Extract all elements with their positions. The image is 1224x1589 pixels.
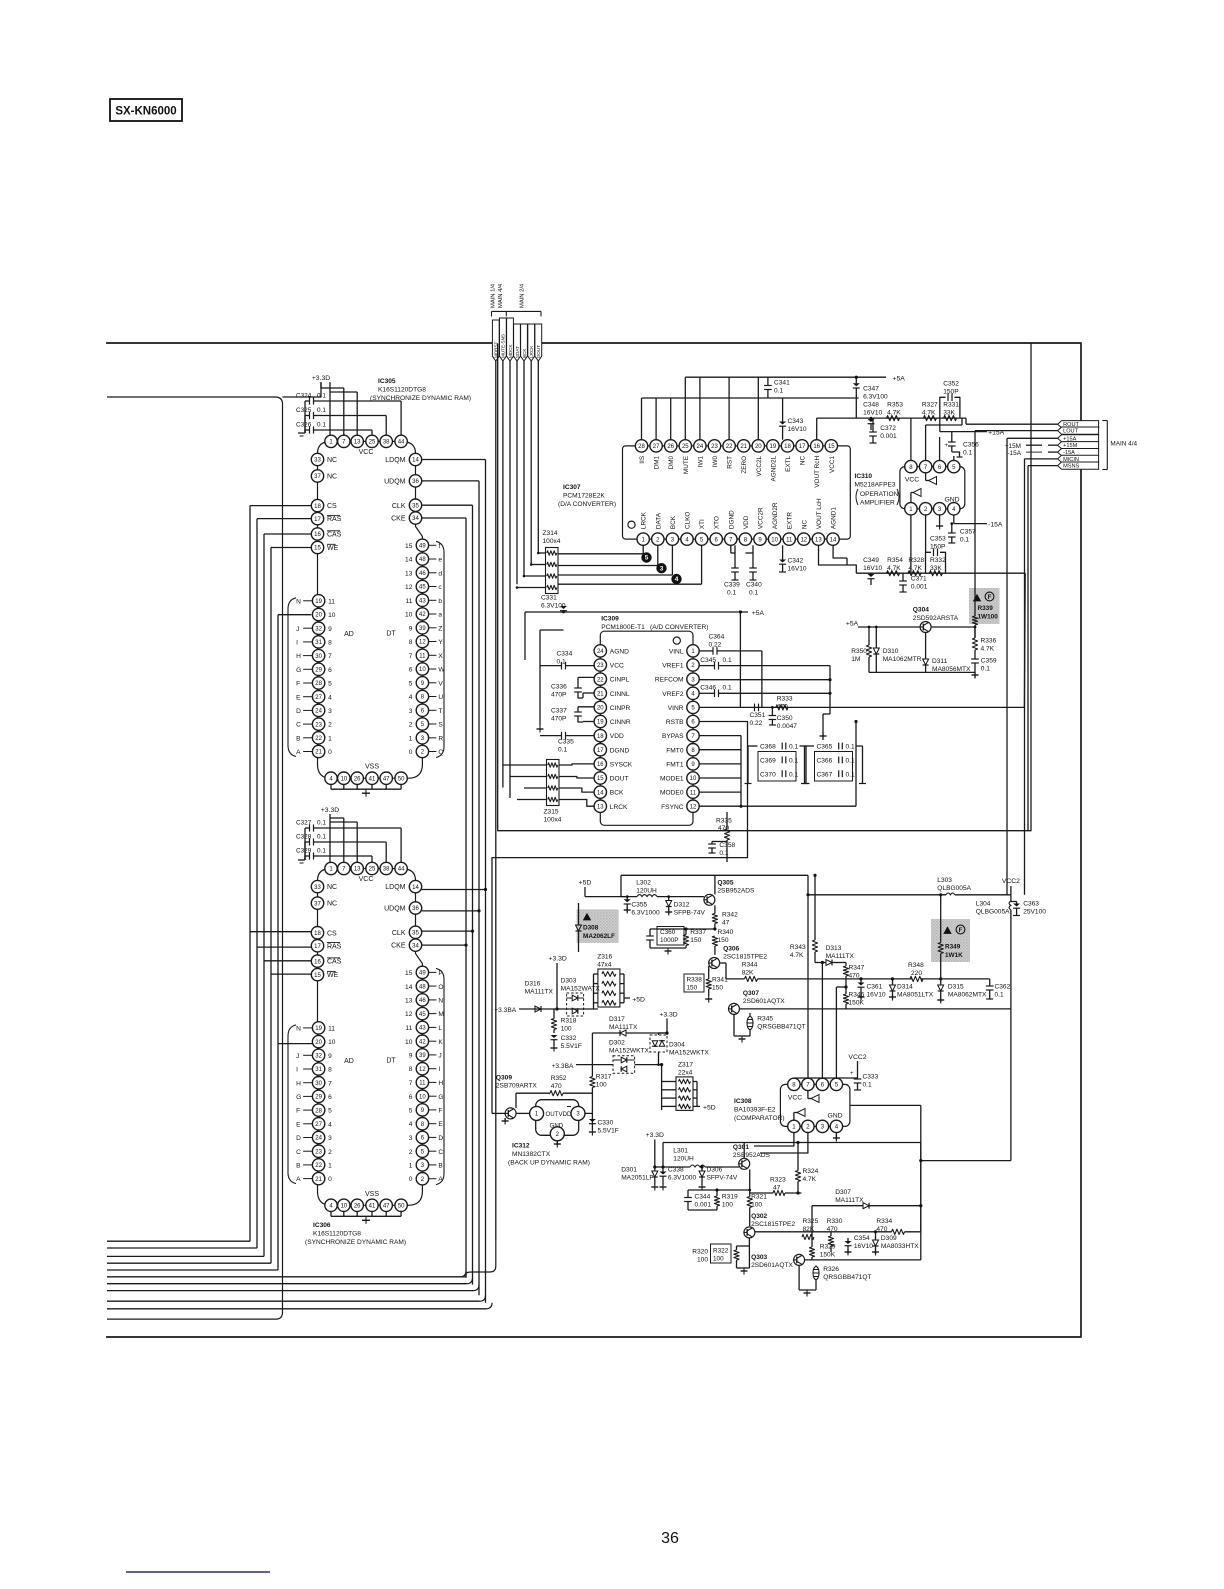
svg-text:D311: D311 [932, 658, 948, 665]
svg-text:39: 39 [419, 1053, 426, 1059]
svg-text:13: 13 [597, 804, 604, 810]
svg-text:0.1: 0.1 [558, 747, 567, 754]
svg-text:D306: D306 [707, 1167, 723, 1174]
svg-text:38: 38 [383, 867, 390, 873]
capacitor C358 0.1 [708, 842, 735, 857]
wires IC309 mode pins [699, 720, 857, 808]
svg-text:8: 8 [409, 639, 413, 646]
svg-text:220: 220 [911, 970, 922, 977]
wires IC310 bottom [911, 515, 926, 573]
svg-text:41: 41 [369, 776, 376, 782]
svg-text:11: 11 [328, 598, 335, 605]
svg-text:39: 39 [419, 626, 426, 632]
svg-text:C368: C368 [760, 744, 776, 751]
svg-text:7: 7 [409, 653, 413, 660]
svg-text:VSS: VSS [365, 764, 379, 771]
svg-text:C335: C335 [558, 739, 574, 746]
svg-text:D: D [296, 708, 301, 715]
svg-text:R339: R339 [978, 605, 994, 612]
svg-text:46: 46 [419, 998, 426, 1004]
resistor R354 4.7K [887, 557, 904, 576]
svg-text:N: N [296, 1026, 301, 1033]
svg-text:D: D [296, 1135, 301, 1142]
svg-text:150: 150 [687, 985, 698, 992]
svg-text:0.001: 0.001 [911, 584, 928, 591]
wire net RAS [107, 519, 311, 1248]
svg-text:16V10: 16V10 [863, 565, 882, 572]
svg-text:C348: C348 [863, 402, 879, 409]
svg-text:K16S1120DTG8: K16S1120DTG8 [313, 1231, 361, 1238]
svg-text:C338: C338 [668, 1167, 684, 1174]
wires Z314 to IC307 pins [558, 545, 702, 584]
svg-text:1: 1 [409, 1163, 413, 1170]
connector flag MDRST [492, 320, 499, 361]
inductor L301 120UH label [673, 1148, 694, 1163]
wire MSNS [1028, 466, 1058, 831]
svg-text:14: 14 [412, 885, 419, 891]
wire -15A stub2 [1008, 450, 1058, 457]
resistor R347 470 [843, 963, 864, 988]
svg-text:L301: L301 [673, 1148, 688, 1155]
wire +5A mute rail [846, 621, 975, 628]
svg-text:25: 25 [369, 440, 376, 446]
svg-text:0.1: 0.1 [317, 421, 326, 428]
wire net UDQM [422, 481, 481, 1295]
svg-text:MSNS: MSNS [1063, 464, 1079, 470]
svg-text:15: 15 [597, 776, 604, 782]
svg-text:AD: AD [344, 1058, 354, 1065]
+5A label top [893, 375, 906, 382]
svg-text:37: 37 [314, 901, 321, 907]
svg-text:U: U [438, 694, 443, 701]
resistor R327 4.7K [922, 402, 938, 421]
svg-text:NC: NC [800, 456, 807, 466]
diode D317 MA111TX [592, 1016, 667, 1036]
svg-text:VCC2R: VCC2R [758, 507, 765, 529]
svg-text:DM0: DM0 [668, 455, 675, 469]
svg-text:(BACK UP DYNAMIC RAM): (BACK UP DYNAMIC RAM) [508, 1160, 590, 1167]
svg-text:0.1: 0.1 [846, 758, 855, 765]
+3.3D supply node IC305 [312, 375, 357, 435]
svg-text:2SB952ADS: 2SB952ADS [733, 1152, 771, 1159]
svg-text:11: 11 [328, 1026, 335, 1033]
resistor R330 470 [827, 1218, 843, 1252]
svg-text:MUTE: MUTE [683, 456, 690, 474]
svg-text:23: 23 [711, 444, 718, 450]
svg-text:44: 44 [398, 440, 405, 446]
svg-text:3: 3 [328, 708, 332, 715]
IC312 body/pins [516, 1100, 592, 1148]
IC307 pin1 mark [628, 521, 635, 528]
svg-text:11: 11 [690, 790, 697, 796]
svg-text:0.1: 0.1 [789, 744, 798, 751]
svg-text:T: T [438, 708, 442, 715]
svg-text:20: 20 [755, 444, 762, 450]
svg-text:J: J [296, 626, 299, 633]
svg-text:15: 15 [314, 973, 321, 979]
resistor R342 47 [712, 905, 738, 929]
svg-text:-15A: -15A [988, 522, 1003, 529]
svg-text:33: 33 [314, 458, 321, 464]
IC305 body outline [318, 441, 423, 778]
resistor R346 150K [843, 987, 864, 1009]
svg-text:12: 12 [405, 584, 413, 591]
IC309 body [600, 631, 693, 825]
svg-text:10: 10 [405, 1039, 413, 1046]
svg-text:22: 22 [315, 1163, 322, 1169]
svg-text:O: O [438, 984, 443, 991]
svg-text:+5D: +5D [579, 880, 592, 887]
connector bracket MAIN 1/4, MAIN 4/4, MAIN 2/4 [491, 283, 542, 316]
svg-text:G: G [296, 667, 301, 674]
svg-text:H: H [438, 1080, 443, 1087]
svg-text:12: 12 [405, 1011, 413, 1018]
svg-text:MA1062MTR: MA1062MTR [883, 656, 922, 663]
wire ROUT [966, 418, 1058, 424]
capacitor C339 0.1 [724, 545, 740, 596]
svg-text:R333: R333 [777, 696, 793, 703]
svg-text:C355: C355 [631, 902, 647, 909]
svg-text:+3.3D: +3.3D [321, 807, 339, 814]
svg-text:E: E [438, 1121, 443, 1128]
wires Z315 to IC309 [559, 764, 594, 806]
svg-text:Q302: Q302 [751, 1213, 767, 1220]
svg-text:C334: C334 [557, 651, 573, 658]
svg-text:44: 44 [398, 867, 405, 873]
svg-text:C362: C362 [995, 984, 1011, 991]
svg-text:ZERO: ZERO [741, 456, 748, 474]
svg-text:VREF1: VREF1 [662, 663, 684, 670]
svg-text:6: 6 [409, 667, 413, 674]
resistor R349 1W1K (fusible) [931, 893, 970, 979]
svg-text:25: 25 [682, 444, 689, 450]
svg-text:SDAT: SDAT [515, 346, 520, 358]
svg-text:(D/A CONVERTER): (D/A CONVERTER) [558, 501, 616, 508]
svg-text:DOUT: DOUT [536, 345, 541, 358]
svg-text:42: 42 [419, 1039, 426, 1045]
svg-text:+3.3BA: +3.3BA [552, 1063, 574, 1070]
svg-text:M: M [438, 1011, 444, 1018]
svg-text:+15M: +15M [1005, 443, 1021, 450]
svg-text:17: 17 [597, 748, 604, 754]
wire pin5 [953, 456, 955, 460]
wire to IC308 pin5 [836, 985, 847, 1078]
schematic outer border [106, 343, 1081, 1337]
svg-text:R319: R319 [722, 1194, 738, 1201]
svg-text:32: 32 [315, 1054, 322, 1060]
svg-text:D310: D310 [883, 648, 899, 655]
wire +15A supply stub [940, 418, 1005, 437]
svg-text:BCK: BCK [522, 348, 527, 358]
svg-text:48: 48 [419, 984, 426, 990]
wire net +3.3D vertical bus [107, 383, 321, 1319]
resistor R334 470 [856, 1218, 921, 1235]
svg-text:3: 3 [660, 565, 664, 572]
IC306 control pins NC/CS/RAS/CAS/WE [311, 880, 341, 980]
svg-text:23: 23 [315, 1149, 322, 1155]
svg-text:VDD: VDD [610, 733, 624, 740]
svg-text:16V10: 16V10 [863, 410, 882, 417]
svg-text:MA8062MTX: MA8062MTX [948, 992, 987, 999]
svg-text:B: B [296, 1163, 301, 1170]
diode D315 MA8062MTX [937, 977, 987, 1003]
svg-text:OUT: OUT [546, 1111, 559, 1118]
wire MICIN [1025, 459, 1058, 895]
svg-text:Q309: Q309 [496, 1074, 512, 1081]
svg-text:47: 47 [383, 1204, 390, 1210]
IC306 K16S1120DTG8 label [305, 1222, 406, 1246]
svg-text:12: 12 [800, 537, 807, 543]
svg-text:DGND: DGND [610, 747, 630, 754]
capacitor C328 0.1 [296, 833, 386, 862]
svg-text:0.1: 0.1 [981, 666, 990, 673]
svg-text:6.3V1000: 6.3V1000 [668, 1175, 697, 1182]
svg-text:5: 5 [328, 681, 332, 688]
svg-text:A: A [296, 1176, 301, 1183]
svg-text:25: 25 [369, 867, 376, 873]
svg-text:31: 31 [315, 640, 322, 646]
resistor R322 body [734, 1246, 739, 1268]
IC306 AD address pins [288, 1022, 354, 1185]
diode D313 MA111TX [815, 945, 855, 965]
svg-text:13: 13 [815, 537, 822, 543]
svg-text:6: 6 [328, 1094, 332, 1101]
svg-text:22: 22 [726, 444, 733, 450]
svg-text:C366: C366 [817, 758, 833, 765]
IC307 top pins 28-15 [635, 440, 837, 488]
svg-text:+3.3D: +3.3D [646, 1132, 664, 1139]
svg-text:21: 21 [315, 750, 322, 756]
svg-text:DM1: DM1 [654, 455, 661, 469]
capacitor C360 1000P [646, 927, 716, 949]
IC305 DT data pins [386, 539, 445, 758]
svg-text:10: 10 [419, 667, 426, 673]
capacitors C368 C369 C370 [745, 743, 810, 784]
wire +15M stub [1005, 443, 1058, 450]
svg-text:22: 22 [315, 736, 322, 742]
svg-text:LRCK: LRCK [610, 804, 628, 811]
svg-text:2: 2 [328, 722, 332, 729]
capacitor C344 0.001 [684, 1190, 711, 1210]
resistor R335 470 [716, 812, 732, 862]
svg-text:0.1: 0.1 [727, 590, 736, 597]
IC305 AD address pins [288, 595, 354, 758]
svg-text:VCC2: VCC2 [848, 1054, 866, 1061]
svg-text:DOUT: DOUT [610, 776, 629, 783]
resistor R319 100 [688, 1190, 738, 1210]
wire mute bottom [869, 671, 975, 673]
svg-text:R321: R321 [751, 1194, 767, 1201]
svg-text:AGND2L: AGND2L [770, 455, 777, 481]
svg-text:6.3V1000: 6.3V1000 [631, 910, 660, 917]
svg-text:150K: 150K [849, 1000, 865, 1007]
svg-text:7: 7 [409, 1080, 413, 1087]
svg-text:VCC: VCC [905, 477, 919, 484]
wire net CLK [422, 505, 474, 1284]
svg-text:5: 5 [409, 680, 413, 687]
capacitor C324 0.1 [296, 392, 401, 435]
svg-text:11: 11 [419, 1081, 426, 1087]
svg-text:R350: R350 [851, 648, 867, 655]
svg-text:C353: C353 [930, 536, 946, 543]
svg-text:IW0: IW0 [712, 455, 719, 467]
svg-text:C332: C332 [561, 1035, 577, 1042]
svg-text:LDQM: LDQM [385, 884, 405, 891]
svg-text:9: 9 [409, 1053, 413, 1060]
svg-text:QRSGBB471QT: QRSGBB471QT [823, 1274, 871, 1281]
svg-text:C349: C349 [863, 557, 879, 564]
wire Q303 output [805, 1259, 921, 1261]
svg-text:IC307: IC307 [563, 484, 581, 491]
IC308 body [780, 1084, 850, 1126]
ground for C327-C329 [298, 860, 305, 863]
svg-text:R324: R324 [803, 1168, 819, 1175]
IC306 ground [331, 1212, 401, 1224]
IC305 control pins NC/CS/RAS/CAS/WE [311, 453, 341, 553]
svg-text:+3.3D: +3.3D [312, 375, 330, 382]
capacitor C329 0.1 [296, 847, 372, 862]
svg-text:R327: R327 [922, 402, 938, 409]
svg-text:b: b [438, 598, 442, 605]
svg-text:15: 15 [314, 546, 321, 552]
svg-text:Q304: Q304 [913, 606, 929, 613]
svg-text:AGND: AGND [610, 649, 629, 656]
svg-text:50: 50 [398, 776, 405, 782]
IC306 DT data pins [386, 966, 444, 1185]
resistor R336 4.7K [972, 626, 996, 655]
svg-text:(SYNCHRONIZE DYNAMIC RAM): (SYNCHRONIZE DYNAMIC RAM) [305, 1239, 406, 1246]
IC308 comparator A [808, 1091, 819, 1103]
IC310 M5218AFPE3 label [855, 473, 900, 507]
svg-text:26: 26 [354, 1204, 361, 1210]
svg-text:+5A: +5A [893, 375, 906, 382]
svg-text:MAIN 4/4: MAIN 4/4 [1110, 441, 1137, 448]
capacitor C362 0.1 [941, 979, 1011, 999]
svg-text:82K: 82K [742, 970, 754, 977]
svg-text:15: 15 [828, 444, 835, 450]
svg-text:+5A: +5A [846, 621, 859, 628]
resistor R344 82K [720, 962, 858, 982]
svg-text:24: 24 [597, 649, 604, 655]
svg-text:C365: C365 [817, 744, 833, 751]
svg-text:43: 43 [419, 599, 426, 605]
svg-text:22x4: 22x4 [678, 1070, 693, 1077]
IC307 bottom pins 1-14 [637, 498, 839, 545]
svg-text:IC312: IC312 [512, 1143, 530, 1150]
resistor R348 220 [908, 962, 924, 982]
resistor R318 100 [551, 1009, 576, 1033]
svg-text:0.1: 0.1 [963, 450, 972, 457]
svg-text:FMT1: FMT1 [666, 762, 684, 769]
capacitor C371 0.001 [899, 573, 928, 592]
svg-text:0.1: 0.1 [723, 684, 732, 691]
svg-text:26: 26 [354, 776, 361, 782]
resistor R345 QRSGBB471QT [734, 1013, 806, 1043]
svg-text:D301: D301 [621, 1167, 637, 1174]
svg-text:VDD: VDD [559, 1111, 572, 1118]
svg-text:J: J [296, 1053, 299, 1060]
page number 36 [661, 1530, 679, 1547]
svg-text:C344: C344 [695, 1194, 711, 1201]
svg-text:D314: D314 [897, 984, 913, 991]
svg-text:26: 26 [667, 444, 674, 450]
diode D303 MA152WATX [561, 978, 601, 1017]
IC310 amp A symbol [926, 473, 937, 485]
svg-text:8: 8 [409, 1066, 413, 1073]
svg-text:120UH: 120UH [636, 888, 657, 895]
svg-text:C342: C342 [788, 557, 804, 564]
svg-text:H: H [296, 653, 301, 660]
wire bus bottom-left exits [107, 1271, 492, 1309]
resistor R338 150 [684, 974, 704, 992]
capacitor C357 0.1 [948, 522, 976, 543]
svg-text:C337: C337 [551, 708, 567, 715]
title box SX-KN6000 [110, 99, 182, 121]
+3.3D node mid [659, 1012, 678, 1036]
svg-text:27: 27 [315, 1122, 322, 1128]
resistor R325 82K [802, 1218, 819, 1240]
svg-text:D308: D308 [583, 925, 599, 932]
wire MDRST net [107, 361, 496, 1277]
capacitor C330 5.5V1F [589, 1119, 619, 1136]
resistor R326 QRSGBB471QT [799, 1265, 871, 1296]
svg-text:46: 46 [419, 571, 426, 577]
svg-text:AD: AD [344, 631, 354, 638]
svg-text:MA111TX: MA111TX [835, 1197, 864, 1204]
capacitor C336 470P [551, 677, 594, 698]
svg-text:CINNR: CINNR [610, 719, 631, 726]
svg-text:d: d [438, 570, 442, 577]
transistor Q301 2SB952ADS [733, 1144, 771, 1169]
transistor Q306 2SC1815TPE2 [709, 946, 768, 969]
connector flag -15A [1058, 449, 1099, 457]
capacitor C345 0.1 [699, 657, 830, 740]
svg-text:R332: R332 [930, 557, 946, 564]
svg-text:36: 36 [412, 906, 419, 912]
svg-text:C369: C369 [760, 758, 776, 765]
svg-text:47x4: 47x4 [597, 962, 612, 969]
wires IC310 top [911, 418, 962, 460]
svg-text:41: 41 [369, 1204, 376, 1210]
connector flag DOUT [535, 324, 542, 361]
IC306 body outline [318, 869, 423, 1206]
svg-text:1: 1 [328, 735, 332, 742]
resistor R317 100 [590, 1033, 612, 1093]
svg-text:C363: C363 [1023, 901, 1039, 908]
transistor Q303 2SD601AQTX [751, 1254, 805, 1269]
svg-text:RAS: RAS [327, 943, 342, 950]
svg-text:LOUT: LOUT [1063, 429, 1079, 435]
wire LOUT [975, 431, 1058, 574]
svg-text:11: 11 [406, 598, 413, 605]
svg-text:Q307: Q307 [743, 990, 759, 997]
svg-text:150K: 150K [820, 1252, 836, 1259]
svg-text:BCK: BCK [610, 790, 624, 797]
IC308 pins 1,2,3,4 [788, 1113, 843, 1133]
svg-text:a: a [438, 612, 442, 619]
IC308 comparator B [794, 1109, 805, 1121]
svg-text:CS: CS [327, 930, 337, 937]
svg-text:VCC: VCC [359, 876, 374, 883]
svg-text:48: 48 [419, 557, 426, 563]
diode D311 MA8056MTX [923, 633, 971, 674]
svg-text:4.7K: 4.7K [790, 952, 804, 959]
svg-text:+5A: +5A [752, 610, 765, 617]
resistor R339 1W100 (fusible) [969, 573, 1000, 638]
svg-text:D313: D313 [826, 945, 842, 952]
svg-text:38: 38 [383, 440, 390, 446]
svg-text:2: 2 [328, 1149, 332, 1156]
